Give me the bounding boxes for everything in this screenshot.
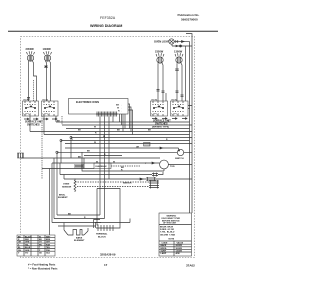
svg-text:DLB RELAY: DLB RELAY [96,165,108,168]
wire bus row 1 [56,121,190,123]
wire bus row 11 [42,168,94,170]
wire bus row 10 [52,162,160,164]
svg-text:1300W: 1300W [174,50,183,54]
svg-text:BLOCK: BLOCK [98,236,106,238]
connector on LF lead [44,66,48,67]
svg-text:ELECTRONIC OVEN: ELECTRONIC OVEN [76,101,99,104]
surface element LF coil hatch [44,51,52,54]
ground strap on border [18,153,24,158]
svg-text:17: 17 [104,263,108,267]
connector on row 13 [146,177,156,181]
chassis dashed border [21,37,195,258]
svg-text:BLACK: BLACK [25,235,32,238]
sensor plug [149,180,159,189]
svg-text:3203A28-09: 3203A28-09 [100,252,116,256]
svg-text:H1 H2: H1 H2 [172,100,179,102]
svg-text:# = Fast-Heating Parts: # = Fast-Heating Parts [28,263,56,267]
svg-text:OVEN LIGHT: OVEN LIGHT [154,41,170,44]
connectors above right boxes [162,91,184,96]
svg-text:SENSOR: SENSOR [123,183,132,185]
wire bus row 5 [44,134,190,136]
wire bus row 13 [64,178,146,180]
riser to lower rows [53,158,55,219]
oven light [169,39,174,44]
svg-text:R →: R → [118,111,122,113]
svg-text:SWITCH: SWITCH [175,158,184,160]
enclosure wire top [97,189,120,229]
power feed corner L1 [186,34,192,213]
wire run lower left [57,214,100,216]
svg-text:* = Non-Illustrated Parts: * = Non-Illustrated Parts [28,267,58,271]
surface element RF coil hatch [156,53,164,56]
svg-text:BROIL: BROIL [59,195,66,197]
wire LF left lead [46,61,47,101]
arrow on switch wire [160,147,163,149]
sensor wire top [75,181,149,183]
svg-text:W →: W → [117,108,122,110]
lamp feed riser [171,44,173,46]
wire RR right lead [181,63,182,101]
bake element [68,230,84,236]
surface element RR coil hatch [175,53,183,56]
svg-text:ELEMENT: ELEMENT [58,197,68,199]
switch D stubs to power lines [188,106,192,109]
svg-text:1300W: 1300W [43,47,52,51]
svg-text:BAKE: BAKE [76,236,83,239]
node P3 [56,151,58,153]
svg-text:NOTE: NOTE [169,239,175,241]
switch interior ticks right [153,105,164,112]
box D extra top wire [185,46,187,101]
svg-text:BK →: BK → [116,105,122,107]
svg-text:VIO: VIO [25,253,29,255]
wire bus row 2 [62,124,192,126]
wire bus row 4 [30,131,192,133]
svg-text:TERMINAL: TERMINAL [96,233,108,236]
wire labels [57,120,168,219]
electronic oven control box [69,99,129,115]
svg-text:BLUE: BLUE [25,247,31,249]
pin risers below comb [113,114,125,132]
svg-text:2350W: 2350W [155,50,164,54]
surface element LF [44,55,50,61]
wire to light switch [65,147,179,149]
svg-text:H1 H2: H1 H2 [152,100,159,102]
svg-text:LAMP: LAMP [161,252,167,255]
connector on RF lead [157,90,160,92]
surface element RF [157,57,163,63]
wire bus row 6 [71,137,192,139]
comb base [96,113,118,115]
switch interior ticks left [25,105,36,112]
svg-text:5995379000: 5995379000 [181,18,198,22]
svg-text:W: W [94,127,96,129]
oven light switch [177,149,183,155]
loop wire A [82,152,164,171]
wire lamp to L1 [174,41,189,43]
svg-text:H1 H2: H1 H2 [24,100,31,102]
svg-text:W: W [39,236,41,238]
notes box [159,213,192,256]
loop wire B [83,158,85,169]
svg-text:FEF352A: FEF352A [100,16,116,20]
node P1 [70,137,72,139]
svg-text:PNK: PNK [46,250,51,252]
light switch wire row [172,45,192,47]
svg-text:SWITCHES: SWITCHES [27,124,40,127]
surface element LR [27,55,33,61]
wire latch to L1 [168,164,192,166]
surface element LR coil hatch [27,51,35,54]
wire LF right lead [50,61,51,101]
control terminal comb [97,112,117,117]
relay comb [75,164,83,169]
surface switch RF box [42,101,59,116]
wire LR right lead with jog [33,61,37,101]
pin arrows below right boxes [152,118,167,120]
svg-text:40W: 40W [176,252,180,255]
svg-text:W: W [96,161,98,163]
inline connector block [144,143,151,147]
wire RF right lead [162,63,163,101]
enclosure wire left [97,189,99,226]
svg-text:ELEMENT: ELEMENT [74,240,85,242]
connector on lamp wire [176,40,179,43]
svg-text:PUR: PUR [46,244,51,246]
riser wires to terminal block [99,117,101,216]
surface switch RB box [171,101,189,116]
svg-text:ORN: ORN [25,242,30,244]
surface switch LF box [23,101,39,116]
connector on LR lead [27,98,30,100]
svg-text:37A02: 37A02 [186,264,195,268]
svg-text:Publication No.: Publication No. [178,13,200,17]
wire dashed riser left [33,80,35,101]
node P2 [60,140,62,142]
wire switch to L1 [184,152,192,154]
wire LR left lead [28,61,30,101]
svg-text:GLD: GLD [46,253,51,255]
oven door latch motor [160,160,169,169]
wire bus row short [84,155,122,157]
svg-text:GRN: GRN [25,250,30,252]
svg-text:SENSOR: SENSOR [62,187,72,189]
surface element RR [176,57,182,63]
svg-text:RED: RED [25,239,30,241]
wires wrapping control right [128,104,130,129]
wire bus row 8 [65,143,192,145]
wire RF left lead [157,63,159,101]
nested corner wires [94,220,102,229]
svg-text:WIRING DIAGRAM: WIRING DIAGRAM [90,24,122,28]
wire bus row 7 [61,140,190,142]
svg-text:W: W [94,142,96,144]
wire bus row 12 [60,174,152,176]
svg-text:BRN: BRN [46,239,51,241]
svg-text:OVEN: OVEN [63,184,70,186]
sensor wire bottom [77,186,149,188]
svg-text:W: W [113,161,115,163]
svg-text:W: W [103,136,105,138]
svg-text:TAN: TAN [46,246,50,249]
header rule [8,30,218,32]
wire RR left lead [176,63,178,101]
svg-text:2350W: 2350W [26,47,35,51]
wire to light switch lower [57,151,177,153]
bake relay box [94,163,111,169]
wire colour code table [17,235,55,256]
connector bullet on switch wire [180,45,182,47]
arrow on lamp wire [182,41,185,43]
svg-text:GN-GRN T-TAN: GN-GRN T-TAN [160,233,176,236]
pin arrows below left boxes [24,118,38,120]
wire bus row 9 [21,157,161,159]
connector on row 12 [152,173,158,177]
oven sensor [74,181,76,191]
terminal block comb [96,225,114,231]
surface switch RR box [151,101,168,116]
wire bus row 3 [66,128,190,130]
connector on RR lead [175,69,179,70]
svg-text:H1 H2: H1 H2 [43,100,50,102]
box C extra top wire [165,93,167,101]
svg-text:TOD: TOD [170,166,175,168]
power line L2 [189,42,191,214]
